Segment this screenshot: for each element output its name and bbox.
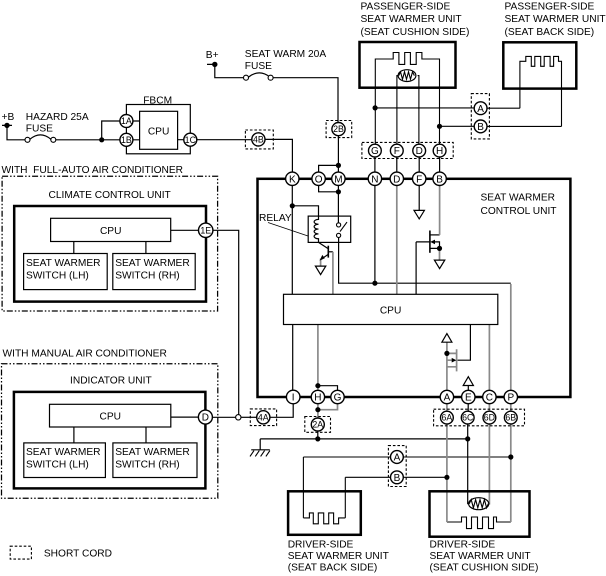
svg-text:CPU: CPU [148, 126, 170, 137]
svg-text:RELAY: RELAY [259, 213, 292, 224]
svg-text:C: C [486, 393, 493, 404]
svg-text:G: G [334, 393, 342, 404]
svg-text:CPU: CPU [100, 226, 122, 237]
svg-text:PASSENGER-SIDE: PASSENGER-SIDE [361, 2, 451, 13]
svg-text:2A: 2A [312, 420, 323, 430]
svg-text:B: B [477, 122, 484, 133]
svg-text:HAZARD 25A: HAZARD 25A [26, 112, 89, 123]
svg-text:A: A [444, 393, 451, 404]
svg-text:DRIVER-SIDE: DRIVER-SIDE [288, 539, 354, 550]
svg-text:F: F [416, 174, 422, 185]
svg-text:SEAT WARMER: SEAT WARMER [481, 193, 556, 204]
svg-text:SEAT WARMER UNIT: SEAT WARMER UNIT [430, 551, 531, 562]
svg-text:SWITCH (LH): SWITCH (LH) [26, 459, 89, 470]
svg-text:INDICATOR UNIT: INDICATOR UNIT [70, 375, 152, 386]
svg-text:B: B [394, 473, 401, 484]
svg-text:SWITCH (LH): SWITCH (LH) [26, 270, 89, 281]
svg-text:DRIVER-SIDE: DRIVER-SIDE [430, 539, 496, 550]
svg-text:FUSE: FUSE [26, 123, 53, 134]
svg-text:SEAT WARMER: SEAT WARMER [26, 447, 101, 458]
svg-text:CONTROL UNIT: CONTROL UNIT [481, 206, 557, 217]
svg-text:1A: 1A [121, 116, 132, 126]
svg-text:SWITCH (RH): SWITCH (RH) [115, 459, 180, 470]
svg-text:CLIMATE CONTROL UNIT: CLIMATE CONTROL UNIT [49, 190, 171, 201]
svg-text:6C: 6C [462, 413, 474, 423]
svg-text:SEAT WARMER: SEAT WARMER [26, 258, 101, 269]
svg-text:D: D [202, 413, 209, 424]
svg-text:SEAT WARMER UNIT: SEAT WARMER UNIT [361, 14, 462, 25]
svg-text:D: D [416, 146, 423, 157]
svg-text:H: H [314, 393, 321, 404]
svg-text:CPU: CPU [380, 306, 402, 317]
svg-text:6B: 6B [505, 413, 516, 423]
svg-text:2B: 2B [333, 124, 344, 134]
svg-text:SEAT WARMER: SEAT WARMER [115, 447, 190, 458]
svg-text:FBCM: FBCM [143, 95, 172, 106]
svg-text:WITH FULL-AUTO AIR CONDITIONE: WITH FULL-AUTO AIR CONDITIONER [2, 165, 184, 176]
svg-text:SEAT WARMER UNIT: SEAT WARMER UNIT [288, 551, 389, 562]
svg-text:6D: 6D [484, 413, 495, 423]
svg-text:(SEAT BACK SIDE): (SEAT BACK SIDE) [505, 27, 595, 38]
svg-text:CPU: CPU [100, 412, 122, 423]
svg-text:O: O [315, 174, 323, 185]
svg-text:+B: +B [2, 112, 15, 123]
svg-text:H: H [436, 146, 443, 157]
svg-text:SHORT CORD: SHORT CORD [44, 549, 112, 560]
svg-text:1E: 1E [200, 225, 211, 235]
svg-text:1C: 1C [185, 135, 197, 145]
svg-text:E: E [465, 393, 472, 404]
svg-text:K: K [289, 174, 296, 185]
svg-text:M: M [334, 174, 342, 185]
svg-text:G: G [371, 146, 379, 157]
svg-text:(SEAT CUSHION SIDE): (SEAT CUSHION SIDE) [361, 27, 470, 38]
svg-text:1B: 1B [121, 135, 132, 145]
svg-text:SEAT WARM 20A: SEAT WARM 20A [245, 49, 327, 60]
svg-text:6A: 6A [442, 413, 453, 423]
svg-text:WITH MANUAL AIR CONDITIONER: WITH MANUAL AIR CONDITIONER [3, 349, 167, 360]
svg-text:D: D [393, 174, 400, 185]
svg-text:P: P [507, 393, 514, 404]
svg-text:I: I [292, 393, 295, 404]
svg-text:4B: 4B [253, 135, 264, 145]
svg-text:PASSENGER-SIDE: PASSENGER-SIDE [505, 2, 595, 13]
svg-text:B: B [436, 174, 443, 185]
svg-text:SEAT WARMER: SEAT WARMER [115, 258, 190, 269]
svg-text:4A: 4A [258, 412, 269, 422]
svg-text:SWITCH (RH): SWITCH (RH) [115, 270, 180, 281]
svg-text:F: F [394, 146, 400, 157]
svg-text:(SEAT BACK SIDE): (SEAT BACK SIDE) [288, 562, 378, 573]
svg-text:(SEAT CUSHION SIDE): (SEAT CUSHION SIDE) [430, 562, 539, 573]
svg-text:B+: B+ [206, 50, 219, 61]
svg-text:SEAT WARMER UNIT: SEAT WARMER UNIT [505, 14, 606, 25]
svg-text:A: A [394, 453, 401, 464]
svg-text:N: N [371, 174, 378, 185]
svg-text:FUSE: FUSE [245, 61, 272, 72]
svg-text:A: A [477, 104, 484, 115]
